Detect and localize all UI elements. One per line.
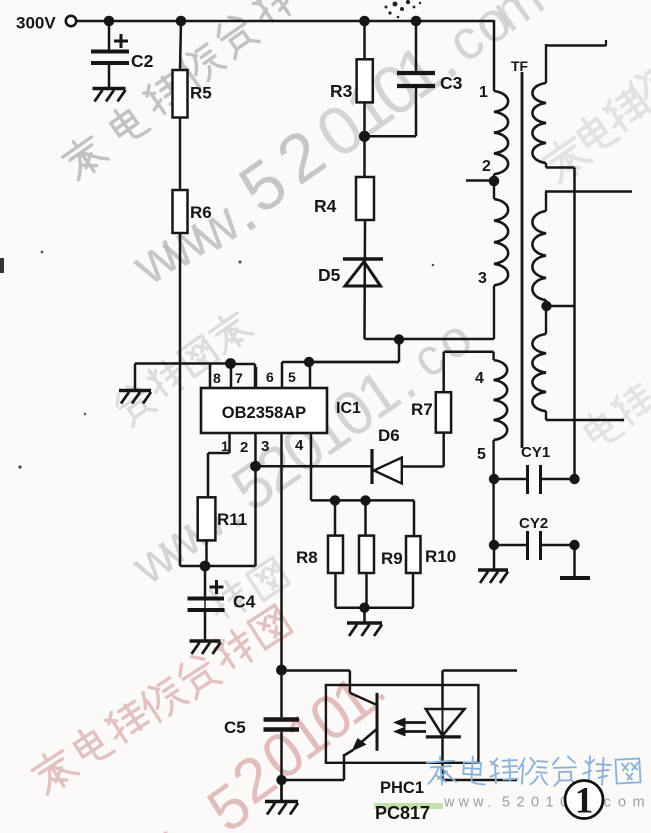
- svg-text:IC1: IC1: [336, 400, 361, 417]
- svg-text:6: 6: [266, 369, 274, 385]
- svg-text:5: 5: [502, 795, 510, 811]
- svg-text:w: w: [458, 795, 470, 811]
- svg-text:.: .: [488, 795, 492, 811]
- svg-text:0: 0: [531, 795, 539, 811]
- svg-text:R6: R6: [190, 203, 212, 222]
- svg-text:R4: R4: [314, 196, 337, 216]
- svg-text:7: 7: [235, 370, 243, 386]
- svg-text:R5: R5: [190, 84, 212, 103]
- svg-text:w: w: [443, 795, 455, 811]
- svg-text:PHC1: PHC1: [380, 779, 424, 797]
- svg-text:w: w: [472, 795, 484, 811]
- svg-text:1: 1: [575, 781, 594, 822]
- svg-text:R3: R3: [330, 81, 353, 101]
- svg-text:R9: R9: [381, 549, 403, 568]
- svg-text:m: m: [633, 795, 645, 811]
- svg-text:300V: 300V: [16, 14, 56, 33]
- svg-text:C3: C3: [440, 73, 463, 93]
- svg-text:CY2: CY2: [519, 515, 548, 532]
- svg-text:R8: R8: [296, 548, 318, 567]
- svg-text:R7: R7: [411, 400, 433, 419]
- svg-text:C5: C5: [224, 718, 246, 737]
- svg-text:2: 2: [240, 439, 248, 456]
- svg-text:3: 3: [478, 270, 487, 287]
- svg-text:1: 1: [546, 795, 554, 811]
- svg-text:TF: TF: [511, 58, 529, 74]
- svg-text:R11: R11: [217, 510, 247, 529]
- svg-text:1: 1: [479, 84, 488, 101]
- svg-text:5: 5: [288, 369, 296, 385]
- svg-text:5: 5: [477, 446, 486, 463]
- svg-text:OB2358AP: OB2358AP: [222, 404, 306, 422]
- svg-text:D5: D5: [318, 265, 341, 285]
- svg-text:CY1: CY1: [521, 444, 550, 461]
- svg-text:C2: C2: [131, 51, 154, 71]
- svg-text:4: 4: [475, 370, 484, 387]
- svg-text:3: 3: [261, 438, 269, 455]
- svg-text:PC817: PC817: [375, 803, 430, 823]
- svg-text:2: 2: [482, 158, 491, 175]
- svg-text:4: 4: [295, 437, 304, 454]
- svg-text:2: 2: [517, 795, 525, 811]
- svg-text:R10: R10: [425, 547, 456, 566]
- svg-text:o: o: [618, 795, 626, 811]
- svg-text:c: c: [604, 795, 611, 811]
- svg-text:8: 8: [213, 370, 221, 386]
- svg-text:1: 1: [221, 438, 229, 454]
- svg-text:D6: D6: [378, 426, 400, 445]
- svg-text:C4: C4: [233, 592, 256, 612]
